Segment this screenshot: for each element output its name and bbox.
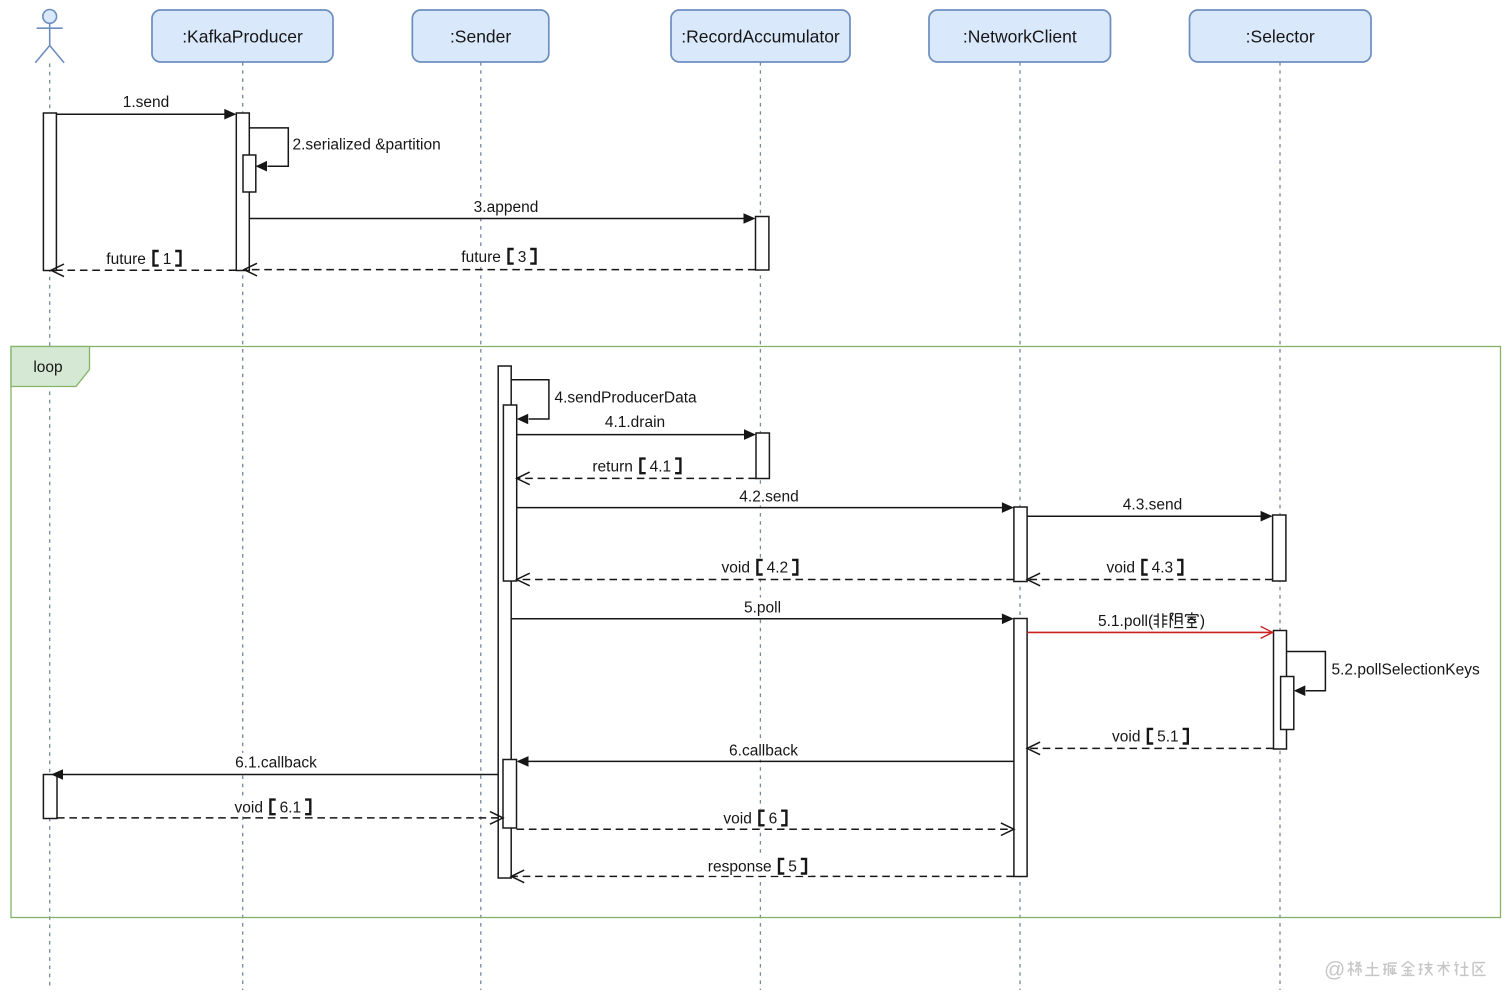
svg-text:4.3: 4.3 — [1152, 560, 1174, 577]
svg-text:4.1: 4.1 — [650, 458, 672, 475]
svg-text::KafkaProducer: :KafkaProducer — [182, 27, 303, 47]
svg-text:4.sendProducerData: 4.sendProducerData — [555, 389, 698, 406]
svg-text:response: response — [708, 859, 772, 876]
svg-text:4.1.drain: 4.1.drain — [605, 414, 665, 431]
svg-text:void: void — [1112, 729, 1140, 746]
svg-text:6.1.callback: 6.1.callback — [235, 755, 317, 772]
svg-text:void: void — [723, 811, 751, 828]
svg-text:6.callback: 6.callback — [729, 743, 798, 760]
svg-text:loop: loop — [33, 359, 62, 376]
svg-text:5.1.poll(: 5.1.poll( — [1098, 613, 1154, 630]
svg-text::Selector: :Selector — [1246, 27, 1315, 47]
svg-text:6: 6 — [769, 811, 778, 828]
svg-text:1: 1 — [163, 251, 172, 268]
svg-text:void: void — [235, 799, 263, 816]
svg-text:4.2.send: 4.2.send — [739, 488, 798, 505]
svg-text::Sender: :Sender — [450, 27, 511, 47]
svg-text:1.send: 1.send — [123, 94, 170, 111]
svg-text:2.serialized &partition: 2.serialized &partition — [293, 137, 441, 154]
svg-text:5: 5 — [788, 859, 797, 876]
svg-text:5.2.pollSelectionKeys: 5.2.pollSelectionKeys — [1332, 661, 1480, 678]
svg-text:void: void — [722, 560, 750, 577]
svg-text:6.1: 6.1 — [280, 799, 302, 816]
svg-text:5.1: 5.1 — [1157, 729, 1179, 746]
svg-text:4.2: 4.2 — [767, 560, 789, 577]
svg-text::NetworkClient: :NetworkClient — [963, 27, 1077, 47]
svg-text:future: future — [106, 251, 146, 268]
svg-text:future: future — [461, 249, 501, 266]
svg-text:return: return — [592, 458, 633, 475]
svg-text:@: @ — [1324, 958, 1345, 981]
svg-text:void: void — [1107, 560, 1135, 577]
svg-text::RecordAccumulator: :RecordAccumulator — [681, 27, 840, 47]
svg-text:): ) — [1200, 613, 1205, 630]
svg-text:5.poll: 5.poll — [744, 599, 781, 616]
svg-text:3: 3 — [518, 249, 527, 266]
svg-text:4.3.send: 4.3.send — [1123, 496, 1182, 513]
svg-text:3.append: 3.append — [474, 199, 539, 216]
